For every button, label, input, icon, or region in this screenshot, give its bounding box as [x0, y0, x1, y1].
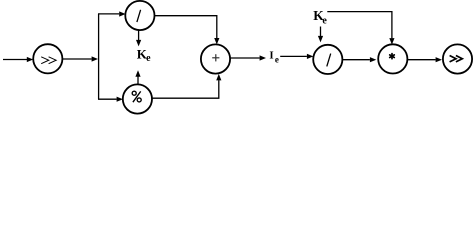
wire: U3 output to summer U4 [152, 74, 221, 98]
label Ie (summer output) [269, 50, 279, 65]
wire: input arrow into first shifter [3, 57, 33, 62]
wire: branch to modulo U3 [98, 97, 123, 102]
wire: label Ie to divider U5 [280, 54, 313, 59]
wire: U1 output to branch node [63, 56, 99, 61]
wire: branch vertical [98, 14, 100, 99]
label Ke (between U2 and U3) [137, 47, 151, 64]
svg-text:I: I [269, 50, 273, 62]
wire: U4 output to label Ie [230, 55, 266, 60]
block U3: modulo % [123, 84, 152, 113]
svg-text:e: e [322, 15, 327, 26]
block U4: summer + [201, 44, 230, 73]
wire: label Ke2 over to multiplier U6 [327, 12, 394, 45]
wire: U3 up arrow to label Ke [135, 70, 140, 84]
label Ke2 (above U5) [313, 8, 327, 26]
block U6: multiply * [378, 44, 407, 73]
wire: U2 down arrow to label Ke [136, 30, 141, 46]
wire: U6 output to shifter U7 [407, 57, 442, 62]
svg-text:e: e [275, 55, 279, 65]
wire: branch to divider U2 [98, 11, 126, 16]
wire: label Ke2 down arrow into U5 [318, 27, 323, 43]
wire: U5 output to multiplier U6 [342, 57, 376, 62]
block U7: shift >> [443, 44, 472, 73]
block U5: divide / [313, 45, 342, 74]
block U1: shift >> [33, 44, 62, 73]
wire: U2 output to summer U4 [154, 16, 219, 45]
svg-text:e: e [146, 53, 151, 64]
block U2: divide / [125, 1, 154, 30]
